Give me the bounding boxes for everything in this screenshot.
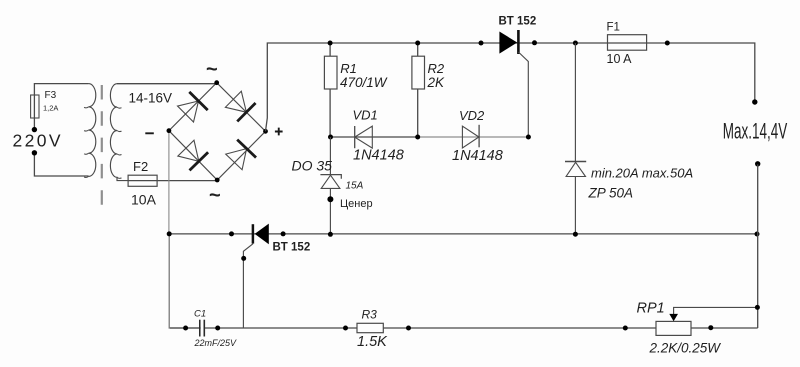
svg-text:1,2A: 1,2A bbox=[43, 104, 58, 113]
diode VD2 bbox=[478, 125, 480, 148]
node RP1 right bbox=[708, 325, 713, 330]
node VD1-VD2 mid bbox=[415, 135, 420, 140]
wire VD1 VD2 row bbox=[330, 136, 417, 138]
svg-text:14-16V: 14-16V bbox=[129, 90, 173, 105]
node bridge AC top bbox=[214, 80, 219, 85]
svg-text:min.20A max.50A: min.20A max.50A bbox=[591, 166, 693, 181]
svg-text:F3: F3 bbox=[45, 90, 57, 101]
node 220V lower terminal bbox=[32, 150, 37, 155]
svg-text:220V: 220V bbox=[13, 131, 63, 151]
wiper arrow RP1 bbox=[669, 314, 678, 321]
node R3 right bbox=[406, 326, 411, 331]
node output plus terminal bbox=[752, 99, 757, 104]
svg-text:10 A: 10 A bbox=[607, 52, 633, 66]
wire right output drop bbox=[757, 164, 759, 328]
wire mid rail bbox=[169, 233, 758, 235]
node bridge AC bottom bbox=[215, 178, 220, 183]
svg-text:22mF/25V: 22mF/25V bbox=[194, 338, 238, 348]
bridge rectifier edges bbox=[169, 83, 266, 180]
svg-text:ZP 50A: ZP 50A bbox=[588, 186, 634, 201]
svg-text:470/1W: 470/1W bbox=[340, 75, 388, 90]
wire ZP branch bbox=[574, 43, 576, 234]
svg-text:1N4148: 1N4148 bbox=[353, 148, 404, 164]
node mid rail before VS2 bbox=[229, 231, 234, 236]
resistor R2 bbox=[417, 43, 419, 137]
wire F2 to bridge bottom node bbox=[128, 180, 217, 182]
svg-text:RP1: RP1 bbox=[637, 301, 665, 317]
diode bridge D4 (bottom node to right node) bbox=[224, 140, 256, 171]
node top rail R1 bbox=[328, 41, 333, 46]
svg-text:10A: 10A bbox=[131, 192, 157, 208]
node mid rail ZP bbox=[573, 232, 578, 237]
wiper wire RP1 bbox=[674, 307, 758, 314]
zener VD3 DO35 bbox=[320, 175, 341, 179]
node VD2 gate junction bbox=[526, 135, 531, 140]
diode VD1 bbox=[354, 126, 356, 148]
svg-text:F2: F2 bbox=[133, 159, 148, 174]
node output minus terminal bbox=[755, 161, 760, 166]
wire primary loop 220V side bbox=[34, 84, 88, 176]
node 220V upper terminal bbox=[32, 127, 37, 132]
node mid rail zener bbox=[328, 232, 333, 237]
node top rail before VS1 bbox=[479, 41, 484, 46]
wire left drop to bottom rail bbox=[169, 234, 199, 328]
svg-text:DO 35: DO 35 bbox=[292, 157, 333, 173]
node RP1 left bbox=[623, 326, 628, 331]
node top rail after F1 bbox=[665, 41, 670, 46]
svg-text:VD1: VD1 bbox=[353, 108, 378, 123]
svg-text:Ценер: Ценер bbox=[340, 198, 373, 210]
fuse F1 bbox=[608, 35, 647, 51]
svg-text:~: ~ bbox=[209, 185, 221, 207]
node RP1 wiper tap bbox=[755, 305, 760, 310]
fuse F2 bbox=[128, 175, 157, 186]
wire secondary top to bridge bbox=[117, 83, 217, 85]
node top rail after VS1 bbox=[532, 40, 537, 45]
svg-text:~: ~ bbox=[206, 59, 218, 81]
wire bottom rail bbox=[170, 327, 758, 329]
potentiometer RP1 bbox=[656, 321, 691, 335]
label minus bbox=[145, 132, 154, 134]
transformer core bbox=[101, 85, 103, 206]
thyristor VS1 BT152 top bbox=[499, 32, 517, 54]
svg-text:F1: F1 bbox=[607, 22, 620, 34]
node top rail ZP branch bbox=[573, 41, 578, 46]
svg-text:BT 152: BT 152 bbox=[273, 242, 311, 254]
svg-text:R3: R3 bbox=[362, 308, 378, 322]
svg-text:1.5K: 1.5K bbox=[357, 334, 388, 350]
node R3 left bbox=[343, 326, 348, 331]
svg-text:BT 152: BT 152 bbox=[499, 16, 537, 28]
svg-text:2.2K/0.25W: 2.2K/0.25W bbox=[649, 340, 722, 355]
node mid rail after VS2 bbox=[281, 231, 286, 236]
wire bridge minus node down the left side bbox=[168, 131, 170, 234]
diode bridge D3 (left node to bottom node) bbox=[177, 139, 208, 170]
node bridge minus bbox=[167, 128, 172, 133]
diode ZP 50A bbox=[565, 161, 586, 163]
zener VD3 DO35 branch wire bbox=[329, 137, 331, 234]
diode bridge D1 (left node to top node) bbox=[176, 92, 207, 123]
resistor R3 bbox=[357, 323, 383, 332]
svg-text:1N4148: 1N4148 bbox=[452, 148, 503, 164]
capacitor C1 bbox=[200, 320, 205, 337]
node mid rail right bbox=[755, 232, 760, 237]
wire plus node up to top rail bbox=[266, 43, 755, 131]
node top rail R2 bbox=[415, 41, 420, 46]
transformer T1 secondary winding bbox=[110, 84, 128, 181]
svg-text:Max.14,4V: Max.14,4V bbox=[723, 118, 788, 143]
node gate VS2 bbox=[241, 256, 246, 261]
svg-text:2K: 2K bbox=[427, 75, 446, 90]
node C1 left bbox=[183, 326, 188, 331]
svg-text:C1: C1 bbox=[194, 309, 206, 320]
fuse F3 bbox=[31, 95, 39, 118]
wire gate of VS2 bbox=[243, 244, 253, 328]
diode bridge D2 (top node to right node) bbox=[224, 90, 255, 121]
svg-text:VD2: VD2 bbox=[459, 108, 485, 123]
node bridge plus bbox=[263, 129, 268, 134]
resistor R1 bbox=[329, 43, 331, 137]
label plus bbox=[275, 128, 283, 136]
node zener anode bbox=[327, 196, 333, 202]
transformer T1 primary winding bbox=[89, 84, 96, 177]
svg-text:15A: 15A bbox=[346, 181, 364, 192]
wire gate of VS1 bbox=[518, 52, 528, 137]
node C1 right bbox=[215, 326, 220, 331]
node mid rail left bbox=[167, 231, 172, 236]
thyristor VS2 BT152 bottom bbox=[255, 224, 269, 245]
node VD1 left bbox=[328, 135, 333, 140]
